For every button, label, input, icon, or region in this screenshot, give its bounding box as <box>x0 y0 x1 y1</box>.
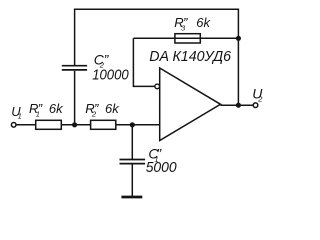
junction output node <box>236 103 241 108</box>
resistor R2 <box>91 120 116 129</box>
wire feedback vertical down to inverting input <box>133 38 155 86</box>
label R1'' 6k <box>29 101 64 118</box>
wire node B down to C1 <box>131 125 133 160</box>
svg-text:1: 1 <box>18 112 22 121</box>
junction R3/right vertical <box>236 36 241 41</box>
capacitor C1 <box>120 160 146 164</box>
label C2'' <box>94 51 110 69</box>
op-amp U1 triangle <box>160 68 221 141</box>
inverting input circle <box>155 84 160 89</box>
input terminal circle U1 <box>11 123 16 128</box>
capacitor C2 <box>62 66 87 70</box>
junction node B (R2/C1/op-amp) <box>130 122 135 127</box>
svg-text:”: ” <box>183 15 188 30</box>
label R2'' 6k <box>85 101 120 118</box>
svg-text:6k: 6k <box>196 15 211 30</box>
resistor R1 <box>36 120 62 129</box>
wire top feedback (C2 top to right vertical) <box>75 9 239 65</box>
wire output <box>221 104 254 106</box>
label U1 <box>11 104 22 121</box>
svg-text:2: 2 <box>257 94 263 103</box>
wire C2 bottom to node A <box>74 71 76 125</box>
resistor R3 <box>175 34 200 43</box>
output terminal circle U2 <box>253 103 258 108</box>
svg-text:”: ” <box>94 101 99 116</box>
svg-text:”: ” <box>38 101 43 116</box>
label C1'' <box>148 146 162 164</box>
wire R2 to op-amp non-inverting input <box>116 124 159 126</box>
svg-text:5000: 5000 <box>146 159 178 176</box>
label R3'' 6k <box>174 15 211 32</box>
svg-text:10000: 10000 <box>92 67 129 84</box>
label U2 <box>252 85 263 103</box>
svg-text:6k: 6k <box>49 101 64 116</box>
svg-text:6k: 6k <box>105 101 120 116</box>
wire right vertical (R3 tee down to output node) <box>237 38 239 105</box>
wire R3 feedback horizontal <box>133 37 238 39</box>
wire input terminal to R1 <box>16 124 36 126</box>
ground <box>121 196 142 199</box>
junction node A (R1/R2/C2) <box>72 122 77 127</box>
svg-text:DA К140УД6: DA К140УД6 <box>149 48 231 65</box>
wire R1 to R2 through node A <box>61 124 91 126</box>
wire C1 bottom to ground <box>131 165 133 197</box>
